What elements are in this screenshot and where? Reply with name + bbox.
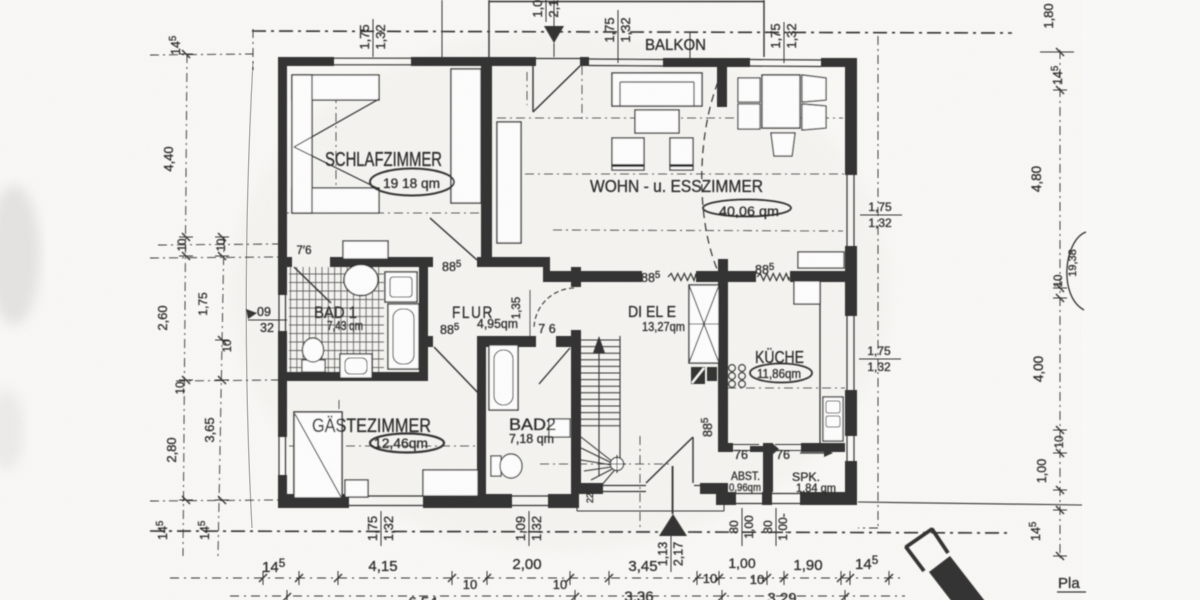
wall step connector [543, 257, 550, 282]
dim pair balcony right [768, 22, 799, 50]
door bottom spk [772, 493, 800, 495]
margin dash line y500 [150, 500, 278, 501]
north arrow letter N [906, 529, 948, 571]
window top balcony left [589, 58, 663, 61]
dimension chain line left 1 [183, 54, 187, 556]
stair walk line arrow up [598, 345, 600, 476]
wall bad2 north [486, 336, 536, 347]
dim pair bottom spk door [761, 508, 790, 546]
wall schlaf/wohn divider [481, 57, 492, 267]
kitchen grid dash y388 [727, 387, 845, 389]
top right corner mark [1040, 51, 1074, 53]
extension line x442 [441, 0, 443, 57]
wall gaeste/bad2 divider [477, 347, 486, 508]
window top balcony right [750, 59, 821, 62]
window right spk [846, 436, 848, 461]
chair right 2 [802, 104, 826, 130]
cooktop circles [729, 365, 736, 372]
dim pair bottom bad2 window [513, 511, 544, 546]
stair right edge [619, 336, 621, 470]
bad1 washing machine [385, 272, 417, 302]
balcony door marker triangle [544, 26, 564, 43]
door arrow abst [750, 443, 779, 455]
right partial ellipse label [1067, 232, 1086, 310]
outer wall right [845, 63, 857, 175]
entrance door leaf [692, 437, 694, 483]
margin dash line y244 ten-row [158, 244, 278, 245]
dim pair entrance [656, 536, 686, 572]
dimension chain line right x1060 [1059, 50, 1061, 558]
bottom wall extension line right y503 [858, 502, 1082, 505]
wall bad1/flur [419, 257, 428, 381]
balcony rail left [488, 0, 490, 57]
entrance marker triangle [659, 514, 687, 536]
chair left 2 [738, 104, 760, 129]
door leaf schlafzimmer-flur [430, 218, 477, 260]
dim pair balcony left [602, 16, 633, 44]
extension line x373 [372, 19, 374, 57]
outer wall bottom right part [728, 492, 736, 505]
coffee table [635, 110, 679, 133]
extension line top-left corner [252, 29, 254, 70]
bottom dimension line row1 [170, 577, 900, 579]
bottom dimension line row2 [230, 595, 905, 597]
extension line x626 [617, 10, 619, 63]
kitchen fridge [794, 281, 820, 304]
balcony door leaf [532, 66, 534, 112]
right chain ticks [1053, 51, 1067, 53]
bad2 toilet [491, 456, 501, 476]
wall stub wohnzimmer x718 [717, 63, 727, 107]
dim pair bottom gaeste window [365, 511, 396, 546]
window left bad1 [278, 295, 280, 331]
grid line x527 schlafzimmer [526, 72, 528, 105]
desk gaestezimmer [423, 470, 478, 496]
dim pair window schlafzimmer [357, 19, 388, 55]
scan tone over plan [230, 30, 890, 550]
wall wohnzimmer south / diele north [549, 271, 642, 282]
wall flur south [428, 336, 433, 347]
chair right 1 [802, 75, 826, 102]
chain jog at bottom right [858, 527, 878, 529]
balcony door opening lines [536, 58, 580, 60]
door bottom abst [736, 493, 762, 495]
extension line x787 [783, 22, 785, 63]
window left gaestezimmer [278, 437, 280, 475]
bad1 bathtub [388, 304, 419, 369]
door spk thin lines [775, 444, 801, 446]
grid line gaeste x339 [338, 400, 340, 508]
balcony rail right [763, 0, 765, 57]
scan smudge left edge [0, 185, 40, 325]
wall schlafzimmer south [278, 257, 292, 267]
balcony overhang dash-dot line y32 [252, 31, 1012, 33]
bad1 tiled floor [289, 267, 384, 372]
wall stairwell west [571, 267, 581, 287]
bad1 sink round [344, 265, 378, 296]
outer wall bottom left part [278, 494, 349, 508]
grid line schlafzimmer x336 [335, 75, 337, 213]
dimension chain line right x878 [877, 36, 879, 528]
window bottom bad2 [512, 495, 548, 497]
stair winders [581, 437, 618, 466]
sideboard left wohnzimmer [497, 122, 521, 243]
outer wall left [278, 57, 287, 295]
window right kueche [846, 316, 848, 390]
wall bad1 south [278, 372, 428, 381]
bad1 door leaf [294, 267, 331, 303]
grid line balcony door x582 [581, 66, 583, 120]
window bottom gaestezimmer [349, 495, 423, 497]
grid line diele y464 [540, 463, 672, 465]
opening zigzag wohn-kueche [757, 274, 789, 281]
grid line entrance x672 [671, 466, 673, 514]
window top schlafzimmer [334, 57, 411, 59]
grid line wohnzimmer y118 [497, 117, 843, 119]
north arrow needle [929, 556, 988, 600]
bed gaestezimmer [294, 412, 342, 498]
bottom dim ticks row1 [262, 571, 264, 585]
kitchen sink unit [823, 397, 843, 441]
stair treads [581, 340, 620, 426]
dim pair balcony door [530, 0, 561, 22]
dresser schlafzimmer [343, 241, 388, 259]
door leaf flur-bad2 [539, 348, 570, 384]
wall abst/spk divider [763, 443, 773, 492]
margin dash line y380 [176, 380, 278, 381]
chair left 1 [738, 78, 760, 102]
nightstand [345, 480, 368, 497]
kitchen counter front edge [819, 281, 821, 446]
door abst thin lines [733, 444, 759, 446]
stair newel circle [611, 458, 624, 471]
flur extension line x530 [529, 290, 531, 336]
balcony rail top [489, 1, 764, 3]
entrance porch outline [576, 494, 578, 511]
wardrobe schlafzimmer [451, 69, 481, 203]
left chain ticks [179, 53, 193, 55]
armchair 2 [670, 138, 693, 170]
bad2 sink [549, 419, 570, 437]
door arrow spk [800, 452, 824, 454]
bad2 bathtub [489, 345, 518, 410]
opening zigzag wohn-diele [668, 274, 696, 281]
bad1 bidet [340, 354, 372, 378]
scan crease curve left of plan [246, 62, 253, 528]
dining table [762, 75, 800, 128]
wall diele/kueche divider [718, 259, 728, 452]
window right wohnzimmer [846, 175, 848, 246]
dim pair bottom abst door [727, 508, 756, 546]
margin dash line y54 [150, 54, 253, 55]
outer wall top [278, 57, 334, 66]
chair bottom [771, 133, 795, 156]
grid line wohnzimmer y174 [525, 173, 845, 175]
armchair 1 [612, 138, 644, 170]
grid line wohnzimmer y230 [553, 230, 843, 231]
grid line diele x640 [639, 436, 641, 530]
dimension chain line left 2 [218, 237, 224, 556]
extension line x690 [689, 33, 691, 63]
bed schlafzimmer [292, 75, 379, 100]
boundary dash-dot line bottom y531 [150, 531, 658, 532]
door leaf flur-gaeste [434, 347, 482, 397]
folding door dashed arc [702, 70, 723, 278]
chimney block with X [689, 285, 719, 363]
sofa [612, 73, 702, 106]
bad1 toilet [302, 360, 325, 372]
grid line schlafzimmer y213 [280, 212, 489, 214]
bottom dim ticks row2 [286, 590, 288, 600]
sideboard right wall [798, 252, 844, 268]
margin dash line y257 [150, 257, 278, 258]
wall closets north [718, 443, 733, 452]
stove black [691, 367, 705, 384]
grid line gaeste y446 [289, 445, 477, 447]
door arc flur-diele [534, 288, 574, 329]
outer wall bottom hallway recess [571, 483, 603, 494]
